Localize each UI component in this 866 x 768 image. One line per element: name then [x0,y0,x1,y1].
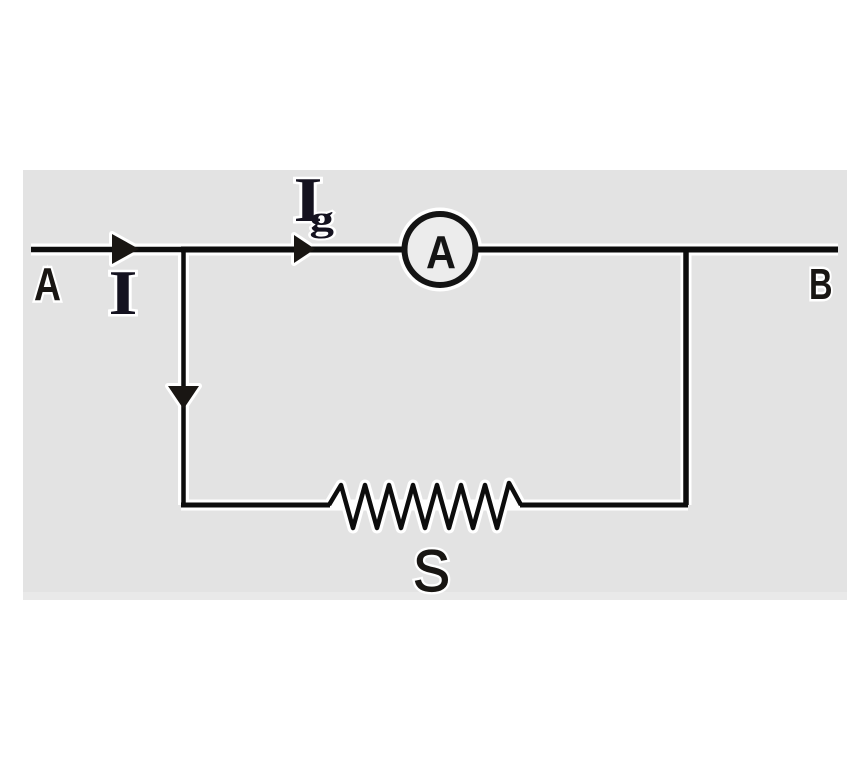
background panel [23,170,847,600]
wire: bottom left segment [181,503,330,508]
arrowhead: shunt current downward [168,386,199,409]
wire: left vertical branch (junction down to shunt) [181,249,186,505]
svg-text:A: A [34,258,61,310]
arrowhead: current Ig on ammeter branch [294,235,315,263]
svg-text:g: g [310,199,335,239]
resistor S (shunt) [329,483,521,528]
svg-text:B: B [809,260,833,309]
wire: right vertical branch [683,250,689,505]
svg-text:I: I [109,258,138,328]
svg-text:S: S [413,539,450,604]
wire: bottom right segment [520,503,688,508]
svg-text:A: A [426,226,456,278]
ammeter A1 (galvanometer) [405,214,476,285]
wire: ammeter to terminal B [470,247,838,253]
arrowhead: current I on input wire [112,234,139,264]
wire: terminal A to junction [31,247,183,253]
current label Ig [294,165,335,239]
wire: junction to ammeter [181,247,410,253]
